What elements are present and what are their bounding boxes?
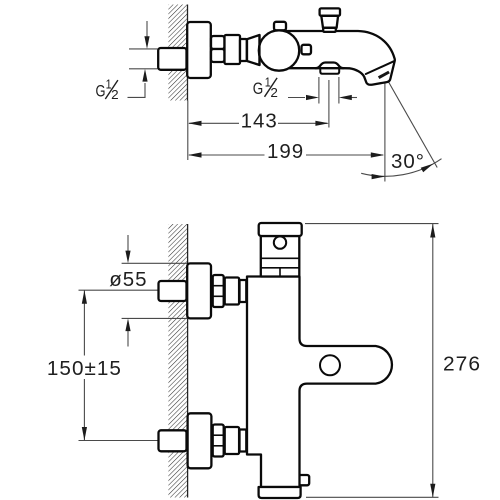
svg-text:150±15: 150±15 — [47, 357, 122, 380]
svg-text:30°: 30° — [391, 150, 425, 173]
svg-text:143: 143 — [241, 110, 278, 133]
svg-text:276: 276 — [443, 353, 481, 376]
svg-text:ø55: ø55 — [109, 268, 147, 291]
svg-text:199: 199 — [267, 140, 304, 163]
svg-text:G: G — [253, 80, 263, 98]
svg-text:G: G — [96, 82, 106, 100]
